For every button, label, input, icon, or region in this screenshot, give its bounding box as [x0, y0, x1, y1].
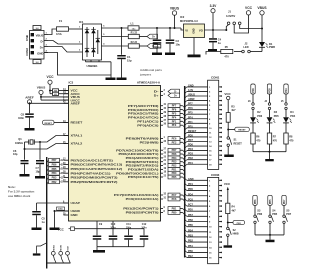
svg-text:PB5: PB5: [270, 199, 272, 204]
svg-text:36: 36: [164, 124, 167, 126]
svg-text:R2 22: R2 22: [131, 41, 138, 44]
bus vertical right: [184, 86, 186, 258]
svg-text:PF5: PF5: [172, 113, 177, 116]
junction VBUS-UVCC: [40, 96, 42, 98]
svg-text:2: 2: [79, 42, 81, 44]
capacitor C4 1u: [209, 30, 222, 49]
svg-text:PD3: PD3: [172, 161, 177, 164]
junction crystal right: [39, 141, 41, 143]
svg-text:PF0: PF0: [188, 125, 193, 128]
svg-text:C1: C1: [127, 55, 131, 59]
CON2 pin 3 stub: [44, 45, 48, 47]
svg-text:MISO: MISO: [53, 245, 55, 251]
switch S5 PD7: [283, 210, 292, 224]
svg-text:3: 3: [164, 90, 166, 92]
svg-text:PF7: PF7: [172, 105, 177, 108]
net tag D+ upper: [147, 34, 158, 39]
capacitor C12 100n: [140, 223, 149, 247]
svg-text:PD5: PD5: [188, 134, 193, 137]
wire UVCC to pin: [41, 99, 69, 101]
CON1 pin 8 PF4: [185, 116, 222, 121]
net tag D- lower: [147, 44, 158, 49]
svg-text:R4: R4: [232, 206, 236, 209]
wire D+ CON2 to IC1: [48, 47, 83, 53]
svg-text:PD2: PD2: [172, 165, 177, 168]
svg-text:VCC: VCC: [47, 75, 55, 79]
svg-text:GND: GND: [71, 213, 79, 217]
svg-text:5: 5: [103, 34, 105, 36]
capacitor C1 15p: [117, 28, 132, 78]
svg-text:C12: C12: [142, 223, 147, 226]
svg-text:IC3: IC3: [69, 81, 74, 85]
IC2 ground pin stem: [193, 38, 195, 55]
svg-text:PD1: PD1: [172, 168, 177, 171]
wire AREF to pin: [30, 102, 69, 104]
svg-text:PD5: PD5: [274, 115, 279, 118]
wire D3 to R7: [269, 123, 271, 133]
svg-text:D+: D+: [40, 46, 44, 50]
svg-text:PD7: PD7: [286, 213, 291, 216]
CON3 pin 16 PE2: [185, 255, 222, 260]
IC3 left pin GND: [63, 213, 78, 217]
designator IC1: [79, 20, 84, 24]
svg-text:22: 22: [164, 176, 167, 178]
junction RESET: [227, 129, 229, 131]
capacitor C9 100n: [93, 223, 103, 247]
label CON2 (rotated): [25, 48, 29, 56]
IC3 left pin PB6(OC1B/PCINT6/ADC13): [63, 163, 122, 167]
ground for USB GND: [106, 78, 116, 81]
svg-text:D+: D+: [154, 94, 159, 98]
svg-text:R1 22: R1 22: [131, 31, 138, 34]
note additional parts: [139, 68, 162, 76]
junction J1 to VBUS: [261, 28, 263, 30]
svg-text:Q1: Q1: [18, 137, 22, 141]
svg-text:PF7: PF7: [188, 103, 193, 106]
svg-text:PB1: PB1: [172, 208, 177, 211]
svg-text:J2: J2: [245, 41, 248, 45]
ground for C1: [117, 78, 127, 81]
power flag VBUS right: [257, 6, 267, 15]
capacitor C11 100n: [124, 223, 133, 247]
svg-text:PD4: PD4: [188, 193, 193, 196]
IC3 left pin UGND: [63, 209, 81, 213]
svg-text:C4: C4: [218, 37, 222, 41]
wire VO output: [205, 29, 227, 31]
wire J1 pin3 to VBUS: [240, 25, 262, 29]
svg-text:38: 38: [164, 116, 167, 118]
wire GND CON2 down: [44, 53, 111, 78]
svg-text:470: 470: [256, 139, 261, 142]
svg-text:26: 26: [164, 153, 167, 155]
svg-text:PB5(OC1A/PCINT5/ADC12): PB5(OC1A/PCINT5/ADC12): [71, 167, 123, 171]
wire R3 to S1: [227, 122, 229, 137]
resistor R6 470: [251, 133, 261, 144]
svg-text:6: 6: [103, 26, 105, 28]
svg-text:32: 32: [164, 194, 167, 196]
IC3 right pin PF4: [128, 116, 185, 120]
svg-text:18: 18: [164, 172, 167, 174]
svg-text:37: 37: [164, 120, 167, 122]
svg-text:PWR: PWR: [269, 45, 275, 49]
svg-text:R3: R3: [231, 105, 235, 108]
svg-text:16MHz: 16MHz: [15, 142, 24, 145]
wire crystal to XTAL2: [25, 144, 69, 150]
wire S5 down: [283, 224, 285, 235]
power flag AREF: [25, 96, 34, 114]
ground for C8: [25, 128, 35, 131]
crystal Q1 16MHz: [15, 137, 34, 145]
svg-text:PD5: PD5: [270, 88, 272, 93]
USB connector shield tab top: [33, 26, 41, 30]
CON1 pin 4 AREF: [185, 98, 222, 103]
net tag PB2: [47, 180, 64, 185]
svg-text:3: 3: [79, 50, 81, 52]
svg-text:XTAL2: XTAL2: [71, 142, 83, 146]
net tag PD6 vertical: [251, 84, 255, 103]
wire J1 pin1 to 3.3V: [225, 25, 228, 31]
jumper J2 LED: [234, 41, 262, 52]
CON1 pin 17 PD2: [185, 157, 222, 162]
wire decoupling rail top: [80, 221, 144, 229]
svg-text:J3: J3: [248, 100, 251, 103]
IC3 right pin PF7: [128, 103, 185, 108]
ground for C4: [208, 49, 217, 51]
svg-text:PF4: PF4: [172, 116, 177, 119]
svg-text:VCC: VCC: [58, 227, 65, 231]
svg-text:PC7: PC7: [188, 204, 193, 207]
svg-text:AREF: AREF: [25, 96, 34, 100]
net tie H1: [50, 92, 69, 96]
svg-text:PD1: PD1: [188, 162, 193, 165]
svg-text:3.3V: 3.3V: [210, 4, 218, 8]
wire VCC to J1 pin2: [234, 15, 248, 33]
IC1 diode D-a: [85, 29, 90, 33]
svg-text:C11: C11: [126, 223, 131, 226]
ground for C6: [20, 174, 30, 177]
svg-text:PD5: PD5: [172, 176, 177, 179]
svg-text:use 8MHz clock: use 8MHz clock: [8, 194, 31, 198]
capacitor C3 10u: [166, 28, 181, 53]
CON3 pin 11 PB4: [185, 229, 222, 234]
svg-text:VBUS: VBUS: [257, 6, 267, 10]
LED D3 PD5: [267, 111, 280, 123]
svg-text:1u: 1u: [42, 220, 45, 224]
resistor R3 4k7: [226, 105, 236, 122]
svg-text:470: 470: [289, 139, 294, 142]
CON2 pin name GND: [37, 52, 43, 56]
wire R6 down: [252, 144, 254, 152]
inductor L1: [128, 21, 139, 30]
svg-text:IC2: IC2: [180, 15, 185, 19]
CON1 pin 2 3.3V: [185, 89, 222, 94]
svg-text:R5: R5: [225, 46, 229, 49]
ground for S1: [224, 155, 234, 158]
IC3 right pin PD4: [126, 156, 185, 160]
svg-text:C6: C6: [13, 149, 17, 153]
CON1 pin 10 PF0: [185, 125, 222, 130]
svg-text:PB7: PB7: [52, 159, 57, 162]
svg-text:L1: L1: [131, 21, 135, 25]
svg-text:IC1: IC1: [79, 20, 84, 24]
LED D4 PD4: [283, 111, 296, 123]
junction PE2: [227, 222, 229, 224]
svg-text:4: 4: [103, 43, 105, 46]
note text: [8, 185, 35, 198]
IC3 left pin XTAL2: [63, 142, 83, 146]
svg-text:4: 4: [164, 93, 166, 96]
junction VCC pin: [49, 90, 51, 92]
resistor R2 22: [128, 41, 139, 48]
svg-text:1u: 1u: [218, 41, 221, 45]
IC3 right pin PD2: [126, 164, 185, 168]
IC2 pin label VO: [199, 29, 203, 33]
ISP pad MOSI: [59, 245, 64, 263]
svg-text:3.3V: 3.3V: [188, 89, 193, 92]
svg-text:PD4: PD4: [285, 88, 288, 93]
IC3 right pin D+: [154, 93, 180, 98]
svg-text:41: 41: [164, 103, 167, 106]
ISP pad SCK: [66, 246, 71, 263]
svg-text:33: 33: [164, 141, 167, 143]
svg-text:D-: D-: [40, 40, 43, 44]
ground for buttons: [266, 240, 275, 243]
wire D2 to R6: [252, 123, 254, 133]
svg-text:20: 20: [164, 164, 167, 166]
IC1 diode D-b: [85, 48, 90, 52]
jumper J1 3.3V/5V: [226, 10, 241, 25]
CON3 pin 8 PB7: [185, 214, 222, 219]
CON3 pin 10 PB5: [185, 224, 222, 229]
jumper J4: [264, 100, 270, 117]
fuse F1: [56, 19, 69, 36]
resistor R7 470: [267, 133, 277, 144]
svg-text:PF0(ADC0): PF0(ADC0): [137, 123, 158, 127]
CON1 pin 14 PD6: [185, 144, 222, 149]
CON3 pin 1 GND: [185, 178, 222, 183]
net tag RESET left: [43, 120, 69, 125]
svg-text:J4: J4: [264, 100, 267, 103]
IC3 right pin PF0: [137, 123, 184, 127]
svg-text:PE2(HWB): PE2(HWB): [140, 141, 159, 145]
svg-text:31: 31: [164, 198, 167, 200]
svg-text:PD3: PD3: [188, 153, 193, 156]
IC3 left pin XTAL1: [63, 134, 83, 138]
CON3 pin 6 PC7: [185, 204, 222, 209]
IC3 left pin AVCC: [63, 91, 81, 96]
IC3 right pin PD7: [116, 148, 185, 152]
net tag PB3: [47, 176, 64, 181]
svg-text:C5: C5: [42, 217, 46, 221]
designator IC3: [69, 81, 74, 85]
svg-text:R8: R8: [289, 136, 293, 139]
svg-text:PF5: PF5: [188, 112, 193, 115]
svg-text:CON2: CON2: [25, 48, 29, 56]
IC3 right pin PD1: [128, 168, 185, 172]
capacitor C5 1u on UCAP: [32, 203, 68, 228]
net tag PB6: [47, 163, 64, 168]
svg-text:VBUS: VBUS: [36, 34, 44, 38]
CON3 pin 9 PB6: [185, 219, 222, 224]
svg-text:VI: VI: [185, 29, 188, 33]
IC3 right pin PB1: [123, 207, 184, 211]
capacitor C2 with bead: [153, 28, 162, 53]
CON2 contact pad 3: [31, 45, 34, 48]
wire bus to ISP ground: [37, 243, 47, 254]
net tag PB6 button: [253, 195, 257, 215]
svg-text:PB6: PB6: [188, 219, 193, 222]
svg-text:D4: D4: [290, 111, 294, 114]
wire VBUS to pin: [41, 96, 69, 98]
CON2 pin 2 stub: [44, 39, 48, 41]
power flag VCC top: [245, 6, 253, 15]
ground for ISP: [33, 253, 41, 255]
svg-text:PF1: PF1: [188, 121, 193, 124]
net tag PB7: [47, 158, 64, 163]
svg-text:10u: 10u: [132, 28, 136, 30]
ground for IC2: [188, 55, 201, 58]
resistor R1 22: [128, 31, 139, 38]
wire buttons common: [255, 234, 284, 240]
resistor R8 470: [284, 133, 294, 144]
svg-text:C7: C7: [36, 166, 40, 170]
svg-text:MCP1825S-3.3: MCP1825S-3.3: [180, 19, 198, 23]
svg-text:PF0: PF0: [172, 124, 177, 127]
svg-text:25: 25: [164, 156, 167, 158]
ground for UGND cap: [50, 228, 60, 231]
IC3 left pin VCC: [63, 88, 78, 93]
svg-text:PD7: PD7: [172, 149, 177, 152]
switch S3 PB6: [254, 210, 263, 224]
power flag VBUS left: [37, 86, 46, 100]
svg-text:PD5(XCK1/CTS): PD5(XCK1/CTS): [128, 175, 159, 179]
label MCP1825S-3.3: [180, 19, 198, 23]
IC3 left pin PB3(PDO/MISO/PCINT3): [63, 176, 118, 180]
svg-text:PF1: PF1: [172, 120, 177, 123]
svg-text:3.3V/5V: 3.3V/5V: [226, 14, 235, 18]
svg-text:PB5: PB5: [188, 224, 193, 227]
IC3 left pin UCAP: [63, 201, 80, 205]
net tag PD7 button: [282, 195, 286, 215]
IC1 diode D+a: [91, 29, 96, 33]
svg-text:C3: C3: [176, 39, 180, 43]
CON1 pin 7 PF5: [185, 112, 222, 117]
svg-text:27: 27: [164, 149, 167, 151]
svg-text:PE6: PE6: [188, 209, 193, 212]
svg-text:VCC: VCC: [224, 92, 231, 96]
switch S1 RESET: [227, 137, 242, 147]
LED D1 PWR: [259, 15, 275, 51]
svg-text:40: 40: [164, 107, 167, 110]
svg-text:LED: LED: [243, 45, 248, 49]
ground for C7: [35, 176, 45, 179]
svg-text:PB6: PB6: [52, 164, 57, 167]
IC3 left pin PB2(PDI/MOSI/PCINT2): [63, 180, 118, 184]
svg-text:PD1: PD1: [188, 183, 193, 186]
svg-text:PD6: PD6: [172, 153, 177, 156]
svg-text:RESET: RESET: [238, 130, 246, 132]
connector CON1 header: [208, 76, 220, 170]
svg-text:PB2(PDI/MOSI/PCINT2): PB2(PDI/MOSI/PCINT2): [71, 180, 118, 184]
connector CON3 header: [208, 173, 220, 264]
ground for decoupling: [93, 250, 105, 253]
svg-text:PD0: PD0: [172, 172, 177, 175]
CON1 pin 18 PD1: [185, 162, 222, 167]
svg-text:ATMEGA32U4-A: ATMEGA32U4-A: [137, 81, 161, 85]
junction AREF: [29, 102, 31, 104]
svg-text:RESET: RESET: [45, 123, 53, 125]
junction C6: [24, 148, 26, 150]
svg-text:PB5: PB5: [272, 213, 277, 216]
IC1 diode D+b: [91, 48, 96, 52]
IC3 left pin AREF: [63, 101, 80, 106]
svg-text:4k7: 4k7: [232, 209, 237, 212]
svg-text:21: 21: [164, 160, 167, 162]
IC3 right pin PC7: [114, 193, 185, 197]
svg-text:VBUS: VBUS: [37, 86, 46, 90]
CON3 pin 12 PB3: [185, 234, 222, 239]
CON2 contact pad 4: [31, 51, 34, 54]
svg-text:GND: GND: [192, 28, 195, 34]
svg-text:100n: 100n: [18, 116, 24, 120]
svg-text:Note:: Note:: [8, 185, 16, 189]
regulator IC2 body: [184, 24, 205, 38]
net tag PB5 button: [268, 195, 272, 215]
wire crystal left: [25, 142, 29, 149]
capacitor C7 18p: [36, 142, 45, 176]
CON2 pin name D+: [40, 46, 44, 50]
wire R8 down: [285, 144, 287, 152]
svg-text:PB2: PB2: [188, 240, 193, 243]
svg-text:PC7: PC7: [172, 194, 177, 197]
IC3 ATMEGA32U4 body: [69, 86, 161, 222]
svg-text:PB1: PB1: [188, 245, 193, 248]
IC3 right pin PC6: [126, 197, 185, 201]
CON3 pin 15 PB0: [185, 250, 222, 255]
svg-text:AREF: AREF: [71, 102, 81, 106]
svg-text:PB5: PB5: [52, 168, 57, 171]
IC3 right pin PF6: [128, 107, 185, 112]
CON3 pin 3 PD0: [185, 188, 222, 193]
power flag VCC left: [47, 75, 55, 94]
IC3 left pin RESET: [63, 121, 82, 125]
label USB (rotated): [25, 35, 29, 41]
CON3 pin 2 PD1: [185, 183, 222, 188]
wire R1 to tag: [139, 36, 147, 38]
wire R7 down: [269, 144, 271, 152]
IC1 bottom gnd pins: [86, 60, 112, 75]
svg-text:100n: 100n: [58, 209, 63, 211]
svg-text:PB0(SS/PCINT0): PB0(SS/PCINT0): [126, 211, 159, 215]
wire crystal to XTAL1: [34, 136, 68, 143]
svg-text:C9: C9: [99, 223, 103, 226]
svg-text:PE2: PE2: [172, 141, 177, 144]
svg-text:PC6: PC6: [172, 198, 177, 201]
svg-text:VO: VO: [199, 29, 203, 33]
svg-text:PD6: PD6: [257, 115, 262, 118]
resistor R4 4k7: [226, 203, 237, 213]
svg-text:PB3: PB3: [188, 234, 193, 237]
CON1 pin 11 RESET: [185, 130, 222, 135]
CON3 pin 13 PB2: [185, 240, 222, 245]
jumper J5: [281, 100, 287, 117]
net tag RESET right: [228, 127, 249, 132]
svg-text:RESET: RESET: [71, 121, 83, 125]
power flag VBUS top: [170, 6, 180, 28]
svg-text:D3: D3: [274, 111, 278, 114]
wire S4 down: [269, 224, 271, 235]
svg-text:PD7: PD7: [188, 139, 193, 142]
